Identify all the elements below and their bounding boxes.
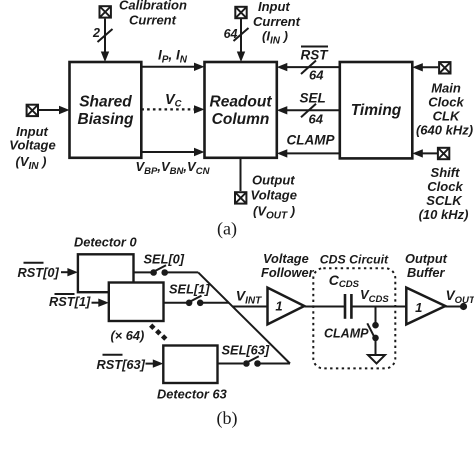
- svg-text:CLAMP: CLAMP: [324, 326, 369, 340]
- svg-text:64: 64: [309, 67, 324, 82]
- wire follower output into CDS capacitor: [305, 306, 345, 308]
- block U1 Shared Biasing: [70, 62, 142, 158]
- pad P2 Input Current: [235, 0, 300, 46]
- wire VBP VBN VCN from Shared Biasing to Readout Column: [136, 148, 211, 177]
- svg-text:(× 64): (× 64): [111, 328, 145, 343]
- block U3 Timing: [340, 62, 413, 158]
- svg-text:Input: Input: [258, 0, 290, 14]
- CDS circuit dotted boundary: [313, 252, 395, 368]
- wire VOUT output terminal: [445, 288, 474, 310]
- svg-text:Buffer: Buffer: [407, 265, 445, 280]
- wire input voltage arrow into Shared Biasing: [39, 106, 70, 114]
- wire Shift Clock into Timing: [412, 149, 437, 157]
- svg-text:Detector 0: Detector 0: [74, 234, 137, 249]
- wire output voltage from Readout Column down to pad: [240, 158, 242, 191]
- svg-text:RST: RST: [301, 48, 330, 63]
- svg-text:Voltage: Voltage: [9, 138, 55, 153]
- svg-text:Detector 63: Detector 63: [157, 386, 227, 401]
- wire summing bus diagonal: [198, 272, 290, 363]
- block U2 Readout Column: [205, 62, 277, 158]
- op-amp A1 voltage follower: [261, 251, 315, 325]
- wire RST0 arrow into detector 0: [18, 263, 78, 280]
- svg-text:SCLK: SCLK: [426, 193, 463, 208]
- svg-text:Column: Column: [212, 111, 270, 128]
- detector D0 box: [74, 234, 137, 292]
- pad P3 Input Voltage: [9, 105, 55, 172]
- pad P6 Output Voltage: [235, 172, 297, 221]
- wire RST1 arrow into detector 1: [49, 294, 109, 309]
- svg-text:(a): (a): [217, 219, 237, 240]
- wire VINT node to voltage follower: [233, 287, 268, 306]
- svg-text:Clock: Clock: [427, 179, 463, 194]
- svg-text:CDS Circuit: CDS Circuit: [320, 252, 389, 266]
- wire IP IN from Shared Biasing to Readout Column: [141, 48, 204, 72]
- svg-text:CLK: CLK: [433, 109, 461, 124]
- svg-text:RST[1]: RST[1]: [49, 294, 91, 309]
- svg-text:2: 2: [92, 26, 100, 40]
- ground symbol: [368, 355, 385, 364]
- svg-text:64: 64: [309, 111, 324, 126]
- wire SEL0 switch from detector 0 to bus: [134, 252, 199, 276]
- svg-text:Calibration: Calibration: [119, 0, 187, 13]
- wire Main Clock into Timing: [412, 63, 438, 71]
- svg-text:Clock: Clock: [428, 95, 464, 110]
- svg-text:Shared: Shared: [79, 94, 132, 111]
- capacitor CCDS: [329, 272, 360, 319]
- svg-text:SEL[63]: SEL[63]: [222, 342, 270, 357]
- svg-text:Current: Current: [129, 13, 177, 28]
- wire RST bus from Timing to Readout Column with slash 64: [277, 47, 340, 83]
- svg-text:Shift: Shift: [431, 165, 461, 180]
- svg-text:1: 1: [275, 299, 282, 314]
- wire CLAMP from Timing to Readout Column: [277, 133, 340, 158]
- svg-text:Main: Main: [431, 81, 461, 96]
- svg-text:Voltage: Voltage: [263, 251, 309, 266]
- wire calibration to Shared Biasing with bus slash 2: [92, 19, 112, 62]
- wire SEL bus from Timing to Readout Column with slash 64: [277, 91, 340, 127]
- detector D1 box: [109, 283, 164, 344]
- svg-text:Timing: Timing: [351, 102, 402, 119]
- svg-text:SEL[1]: SEL[1]: [169, 282, 210, 297]
- detector D63 box: [157, 346, 227, 402]
- op-amp A2 output buffer: [405, 251, 448, 325]
- node VCDS and wire to output buffer: [353, 287, 407, 307]
- pad P4 Main Clock CLK: [416, 62, 473, 137]
- svg-text:(640 kHz): (640 kHz): [416, 123, 473, 138]
- svg-text:1: 1: [415, 300, 422, 315]
- svg-text:Output: Output: [252, 172, 295, 187]
- svg-text:RST[63]: RST[63]: [97, 357, 146, 372]
- svg-text:CLAMP: CLAMP: [287, 133, 336, 148]
- svg-text:(10 kHz): (10 kHz): [419, 207, 469, 222]
- svg-text:Readout: Readout: [210, 94, 273, 111]
- wire input current to Readout Column with bus slash 64: [224, 19, 249, 62]
- svg-text:(b): (b): [217, 408, 238, 429]
- svg-text:SEL: SEL: [300, 91, 326, 106]
- svg-text:SEL[0]: SEL[0]: [144, 252, 185, 267]
- pad P1 Calibration Current: [100, 0, 187, 28]
- svg-text:Biasing: Biasing: [78, 111, 135, 128]
- wire RST63 arrow into detector 63: [97, 355, 164, 372]
- svg-text:Current: Current: [253, 14, 301, 29]
- wire SEL1 switch from detector 1 to bus: [164, 282, 230, 307]
- svg-text:Voltage: Voltage: [251, 188, 297, 203]
- wire VC dotted from Shared Biasing to Readout Column: [141, 92, 204, 114]
- wire SEL63 switch from detector 63 to bus: [218, 342, 291, 367]
- svg-text:RST[0]: RST[0]: [18, 265, 60, 280]
- ellipsis dots between detectors: [149, 324, 167, 341]
- svg-text:Output: Output: [405, 251, 448, 266]
- pad P5 Shift Clock SCLK: [419, 148, 469, 222]
- switch CLAMP to ground: [324, 307, 379, 356]
- svg-text:64: 64: [224, 27, 238, 41]
- svg-text:Follower: Follower: [261, 265, 315, 280]
